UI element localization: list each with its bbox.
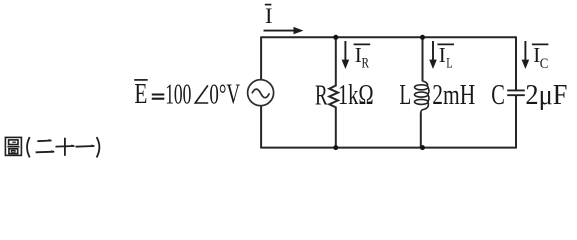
svg-text:R: R: [362, 56, 370, 72]
svg-text:E: E: [134, 78, 147, 110]
svg-text:I: I: [265, 3, 273, 28]
svg-text:100: 100: [165, 78, 191, 110]
svg-text:L: L: [446, 56, 453, 72]
svg-text:R: R: [315, 80, 328, 112]
svg-text:C: C: [540, 56, 549, 72]
svg-text:I: I: [439, 43, 446, 67]
svg-text:1kΩ: 1kΩ: [338, 79, 374, 111]
svg-text:2mH: 2mH: [432, 79, 475, 111]
svg-text:C: C: [491, 79, 505, 111]
svg-text:0°V: 0°V: [209, 78, 240, 110]
svg-text:L: L: [399, 79, 411, 111]
svg-text:2μF: 2μF: [525, 79, 567, 111]
